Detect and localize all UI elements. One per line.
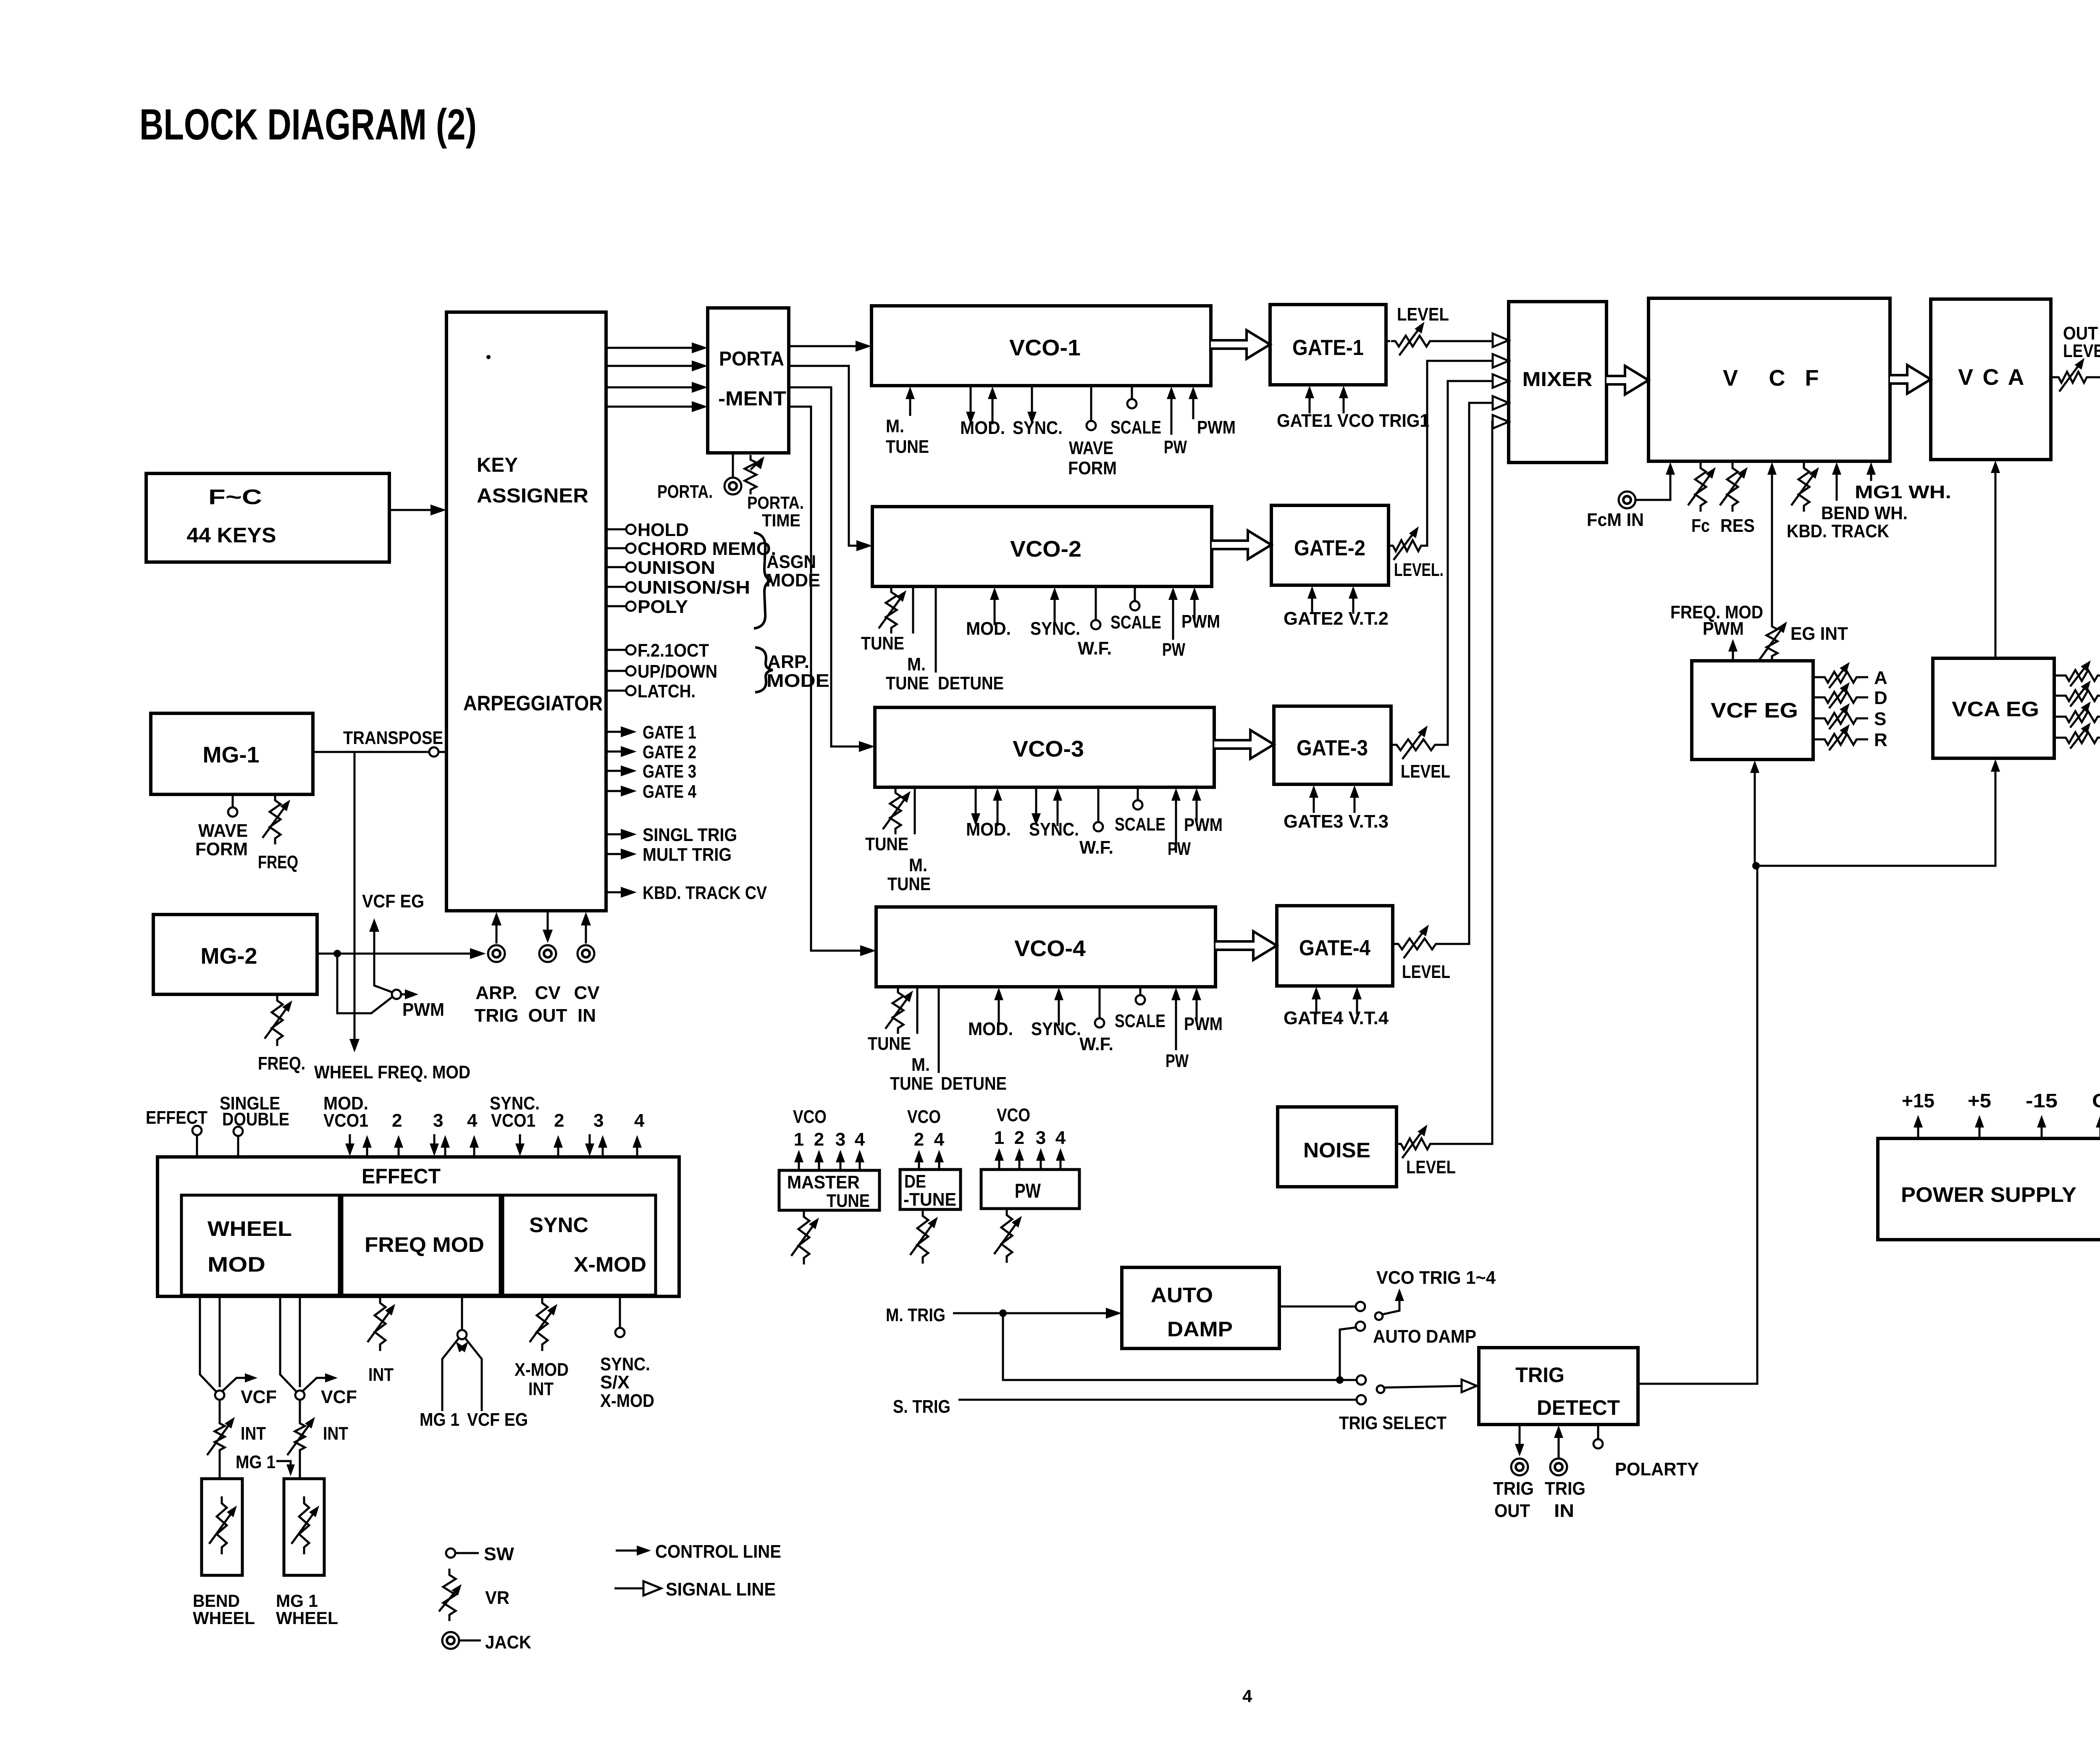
- svg-text:GATE-4: GATE-4: [1299, 936, 1370, 960]
- svg-text:FREQ MOD: FREQ MOD: [365, 1233, 484, 1256]
- svg-text:IN: IN: [1554, 1501, 1574, 1521]
- svg-text:CHORD MEMO.: CHORD MEMO.: [638, 539, 776, 559]
- svg-text:C: C: [1769, 365, 1785, 391]
- svg-text:PWM: PWM: [402, 999, 444, 1020]
- svg-text:SYNC.: SYNC.: [1029, 819, 1079, 840]
- svg-text:TRIG: TRIG: [1515, 1363, 1564, 1387]
- svg-text:KEY: KEY: [477, 454, 518, 476]
- svg-text:PW: PW: [1015, 1180, 1041, 1202]
- svg-text:GATE3 V.T.3: GATE3 V.T.3: [1284, 811, 1389, 832]
- svg-text:4: 4: [1055, 1128, 1066, 1148]
- svg-text:GATE-2: GATE-2: [1294, 536, 1365, 560]
- svg-text:3: 3: [1036, 1128, 1046, 1148]
- svg-text:RES: RES: [1720, 515, 1755, 536]
- svg-text:DE: DE: [904, 1171, 926, 1192]
- svg-text:3: 3: [433, 1110, 443, 1131]
- svg-text:DOUBLE: DOUBLE: [222, 1109, 289, 1130]
- svg-text:SYNC.: SYNC.: [600, 1354, 650, 1375]
- svg-text:-MENT: -MENT: [718, 388, 786, 410]
- svg-text:C: C: [1983, 365, 1999, 390]
- svg-text:MOD.: MOD.: [968, 1019, 1013, 1039]
- svg-text:KBD. TRACK CV: KBD. TRACK CV: [643, 883, 767, 903]
- svg-text:INT: INT: [241, 1423, 266, 1444]
- svg-text:MG 1: MG 1: [276, 1591, 318, 1611]
- svg-text:TRANSPOSE: TRANSPOSE: [343, 728, 443, 748]
- svg-text:TIME: TIME: [762, 510, 801, 530]
- svg-text:MG-1: MG-1: [203, 742, 260, 767]
- svg-text:PWM: PWM: [1181, 611, 1220, 632]
- svg-text:4: 4: [634, 1110, 645, 1131]
- svg-text:KBD. TRACK: KBD. TRACK: [1787, 521, 1889, 541]
- svg-text:DETECT: DETECT: [1537, 1396, 1620, 1419]
- svg-text:DETUNE: DETUNE: [938, 673, 1004, 694]
- svg-text:ASGN: ASGN: [766, 552, 816, 572]
- svg-text:WAVE: WAVE: [198, 820, 248, 841]
- svg-text:TUNE: TUNE: [861, 633, 904, 654]
- svg-text:SW: SW: [484, 1544, 514, 1564]
- svg-text:WHEEL FREQ. MOD: WHEEL FREQ. MOD: [314, 1062, 470, 1083]
- svg-text:MIXER: MIXER: [1522, 368, 1593, 391]
- svg-text:EFFECT: EFFECT: [362, 1164, 441, 1188]
- svg-text:GATE-1: GATE-1: [1292, 336, 1364, 360]
- svg-text:1: 1: [994, 1128, 1004, 1148]
- svg-text:VCF EG: VCF EG: [362, 891, 424, 912]
- svg-text:AUTO DAMP: AUTO DAMP: [1373, 1326, 1476, 1347]
- svg-text:PWM: PWM: [1184, 815, 1223, 835]
- svg-text:X-MOD: X-MOD: [514, 1359, 569, 1380]
- svg-text:SYNC.: SYNC.: [1030, 618, 1080, 639]
- svg-text:SYNC.: SYNC.: [1031, 1019, 1081, 1039]
- svg-text:PORTA.: PORTA.: [657, 481, 713, 502]
- svg-text:GATE 2: GATE 2: [643, 742, 696, 762]
- svg-text:MULT TRIG: MULT TRIG: [643, 844, 732, 865]
- svg-text:TUNE: TUNE: [887, 874, 931, 894]
- svg-text:Fc: Fc: [1691, 515, 1710, 536]
- svg-text:W.F.: W.F.: [1078, 638, 1112, 659]
- svg-text:A: A: [1874, 668, 1887, 688]
- svg-text:UNISON: UNISON: [638, 557, 715, 578]
- svg-text:W.F.: W.F.: [1079, 837, 1113, 858]
- svg-text:TRIG: TRIG: [1493, 1478, 1534, 1499]
- svg-text:GATE 1: GATE 1: [643, 722, 696, 743]
- svg-text:MODE: MODE: [766, 570, 820, 591]
- svg-text:MASTER: MASTER: [787, 1172, 860, 1193]
- svg-text:MG 1: MG 1: [236, 1452, 276, 1472]
- svg-text:W.F.: W.F.: [1079, 1034, 1113, 1054]
- svg-text:2: 2: [914, 1129, 924, 1150]
- svg-text:CV: CV: [574, 983, 600, 1003]
- svg-text:MOD: MOD: [207, 1253, 265, 1276]
- svg-text:TUNE: TUNE: [827, 1191, 870, 1211]
- svg-text:44 KEYS: 44 KEYS: [187, 523, 276, 547]
- svg-text:BEND WH.: BEND WH.: [1821, 503, 1908, 523]
- svg-text:TRIG: TRIG: [474, 1005, 518, 1026]
- svg-text:F.2.1OCT: F.2.1OCT: [638, 640, 709, 661]
- svg-text:PWM: PWM: [1197, 417, 1236, 438]
- svg-text:SIGNAL LINE: SIGNAL LINE: [666, 1579, 776, 1600]
- svg-text:F~C: F~C: [208, 485, 262, 509]
- svg-text:FREQ.: FREQ.: [258, 1053, 305, 1074]
- svg-text:LEVEL.: LEVEL.: [1394, 560, 1444, 580]
- svg-text:INT: INT: [368, 1364, 394, 1385]
- svg-text:M.: M.: [909, 855, 927, 875]
- svg-text:DETUNE: DETUNE: [941, 1073, 1007, 1094]
- svg-text:PWM: PWM: [1703, 618, 1744, 639]
- svg-text:MG-2: MG-2: [201, 944, 257, 969]
- svg-text:INT: INT: [528, 1379, 554, 1399]
- svg-text:VCA EG: VCA EG: [1952, 697, 2039, 721]
- svg-text:4: 4: [467, 1110, 478, 1131]
- svg-text:BEND: BEND: [193, 1591, 240, 1611]
- svg-text:UNISON/SH: UNISON/SH: [638, 577, 750, 598]
- svg-text:ARPEGGIATOR: ARPEGGIATOR: [463, 691, 603, 715]
- svg-text:VCO: VCO: [997, 1105, 1030, 1125]
- svg-text:D: D: [1874, 688, 1887, 708]
- svg-text:OUT: OUT: [1494, 1501, 1530, 1521]
- svg-text:V: V: [1723, 365, 1738, 391]
- svg-text:FcM IN: FcM IN: [1587, 510, 1644, 530]
- svg-text:4: 4: [934, 1129, 945, 1150]
- svg-text:M.: M.: [886, 416, 904, 436]
- svg-text:SYNC: SYNC: [529, 1213, 588, 1237]
- svg-text:SCALE: SCALE: [1115, 814, 1165, 835]
- svg-text:TUNE: TUNE: [868, 1033, 911, 1054]
- svg-text:ASSIGNER: ASSIGNER: [477, 485, 588, 507]
- svg-text:GATE 4: GATE 4: [643, 781, 696, 802]
- svg-text:S: S: [1874, 709, 1886, 729]
- svg-text:PW: PW: [1164, 437, 1187, 457]
- svg-text:POLARTY: POLARTY: [1615, 1459, 1699, 1480]
- svg-text:SYNC.: SYNC.: [1013, 418, 1063, 438]
- svg-text:CONTROL LINE: CONTROL LINE: [655, 1541, 781, 1562]
- svg-text:IN: IN: [577, 1005, 596, 1026]
- svg-text:TRIG SELECT: TRIG SELECT: [1339, 1413, 1446, 1433]
- svg-text:MODE: MODE: [766, 670, 829, 691]
- svg-text:GATE4 V.T.4: GATE4 V.T.4: [1284, 1008, 1389, 1028]
- svg-text:CV: CV: [535, 983, 561, 1003]
- svg-text:GATE1 VCO TRIG1: GATE1 VCO TRIG1: [1277, 410, 1429, 431]
- svg-text:POLY: POLY: [638, 597, 688, 617]
- svg-text:DAMP: DAMP: [1167, 1317, 1233, 1341]
- svg-text:MOD.: MOD.: [966, 819, 1011, 840]
- svg-text:M.: M.: [911, 1054, 930, 1075]
- svg-text:VCO: VCO: [907, 1107, 941, 1127]
- svg-text:UP/DOWN: UP/DOWN: [638, 661, 717, 682]
- svg-text:SCALE: SCALE: [1110, 417, 1161, 438]
- svg-text:SCALE: SCALE: [1115, 1011, 1165, 1031]
- svg-text:VCO TRIG 1~4: VCO TRIG 1~4: [1376, 1267, 1496, 1288]
- svg-text:SCALE: SCALE: [1110, 612, 1161, 633]
- svg-text:INT: INT: [323, 1423, 348, 1444]
- svg-text:V: V: [1958, 365, 1973, 390]
- svg-text:TRIG: TRIG: [1545, 1478, 1585, 1499]
- svg-text:3: 3: [835, 1129, 845, 1150]
- svg-text:-TUNE: -TUNE: [903, 1189, 956, 1210]
- svg-text:VR: VR: [485, 1588, 509, 1608]
- svg-text:PW: PW: [1165, 1051, 1189, 1071]
- svg-text:1: 1: [794, 1129, 804, 1150]
- svg-text:4: 4: [855, 1129, 865, 1150]
- svg-text:MG1 WH.: MG1 WH.: [1855, 482, 1951, 502]
- svg-text:MOD.: MOD.: [960, 418, 1005, 438]
- svg-text:TUNE: TUNE: [886, 673, 929, 694]
- svg-text:X-MOD: X-MOD: [600, 1390, 654, 1411]
- svg-text:PW: PW: [1168, 838, 1191, 859]
- svg-text:VCF: VCF: [321, 1387, 357, 1407]
- svg-text:TUNE: TUNE: [886, 436, 929, 457]
- svg-text:VCO1: VCO1: [323, 1110, 368, 1131]
- svg-text:M. TRIG: M. TRIG: [886, 1305, 945, 1325]
- svg-text:HOLD: HOLD: [638, 520, 689, 540]
- svg-text:2: 2: [1014, 1128, 1024, 1148]
- svg-text:VCO-2: VCO-2: [1010, 536, 1081, 562]
- svg-text:PORTA.: PORTA.: [747, 493, 804, 513]
- svg-text:VCO1: VCO1: [491, 1110, 535, 1131]
- svg-text:+15: +15: [1902, 1090, 1935, 1112]
- svg-text:GATE 3: GATE 3: [643, 761, 696, 782]
- svg-text:VCO-1: VCO-1: [1009, 335, 1081, 360]
- svg-text:WHEEL: WHEEL: [193, 1608, 255, 1628]
- svg-text:LEVEL: LEVEL: [1397, 304, 1449, 325]
- svg-text:LEVEL: LEVEL: [2063, 341, 2100, 361]
- svg-text:VCF EG: VCF EG: [467, 1409, 528, 1430]
- svg-text:MOD.: MOD.: [966, 618, 1011, 639]
- svg-text:VCO-4: VCO-4: [1014, 936, 1086, 961]
- svg-text:LEVEL: LEVEL: [1402, 962, 1450, 982]
- svg-text:FREQ: FREQ: [258, 852, 298, 873]
- svg-text:ARP.: ARP.: [475, 983, 517, 1003]
- svg-text:POWER SUPPLY: POWER SUPPLY: [1901, 1183, 2076, 1206]
- svg-text:GATE2 V.T.2: GATE2 V.T.2: [1284, 608, 1389, 629]
- svg-text:ARP.: ARP.: [767, 652, 809, 672]
- svg-text:TUNE: TUNE: [890, 1073, 933, 1094]
- svg-text:2: 2: [554, 1110, 564, 1131]
- svg-text:WAVE: WAVE: [1069, 438, 1113, 458]
- svg-text:JACK: JACK: [485, 1632, 531, 1653]
- svg-text:3: 3: [593, 1110, 604, 1131]
- svg-text:FORM: FORM: [1068, 458, 1117, 478]
- svg-text:R: R: [1874, 730, 1887, 750]
- svg-text:NOISE: NOISE: [1303, 1138, 1370, 1162]
- svg-text:+5: +5: [1968, 1090, 1991, 1112]
- svg-text:SINGL TRIG: SINGL TRIG: [643, 825, 737, 845]
- svg-text:EG INT: EG INT: [1790, 623, 1848, 644]
- svg-text:PW: PW: [1162, 639, 1185, 660]
- svg-text:4: 4: [1242, 1686, 1252, 1706]
- svg-text:EFFECT: EFFECT: [146, 1107, 207, 1128]
- svg-text:-15: -15: [2026, 1090, 2058, 1112]
- svg-text:2: 2: [392, 1110, 402, 1131]
- svg-text:2: 2: [814, 1129, 824, 1150]
- svg-text:M.: M.: [907, 654, 926, 675]
- svg-text:A: A: [2008, 365, 2024, 390]
- svg-text:LATCH.: LATCH.: [638, 681, 696, 702]
- svg-text:OUT: OUT: [528, 1005, 567, 1026]
- svg-text:PORTA: PORTA: [719, 348, 784, 370]
- svg-text:VCO: VCO: [793, 1107, 827, 1127]
- svg-text:F: F: [1805, 365, 1819, 391]
- svg-text:LEVEL: LEVEL: [1401, 761, 1450, 782]
- svg-text:LEVEL: LEVEL: [1406, 1157, 1456, 1178]
- svg-text:GATE-3: GATE-3: [1297, 736, 1368, 760]
- svg-text:PWM: PWM: [1184, 1014, 1223, 1034]
- svg-text:WHEEL: WHEEL: [207, 1217, 292, 1241]
- svg-text:VCO-3: VCO-3: [1013, 736, 1084, 762]
- svg-text:FORM: FORM: [195, 839, 248, 859]
- svg-text:S. TRIG: S. TRIG: [893, 1396, 950, 1417]
- svg-text:X-MOD: X-MOD: [574, 1253, 646, 1276]
- svg-text:MG 1: MG 1: [420, 1409, 459, 1430]
- svg-text:S/X: S/X: [600, 1372, 630, 1393]
- svg-text:G: G: [2092, 1090, 2100, 1112]
- svg-text:WHEEL: WHEEL: [276, 1608, 338, 1628]
- svg-text:TUNE: TUNE: [865, 834, 908, 854]
- svg-text:VCF: VCF: [241, 1387, 277, 1407]
- svg-text:BLOCK DIAGRAM (2): BLOCK DIAGRAM (2): [139, 100, 477, 149]
- svg-text:AUTO: AUTO: [1151, 1283, 1213, 1307]
- svg-text:VCF EG: VCF EG: [1711, 699, 1798, 722]
